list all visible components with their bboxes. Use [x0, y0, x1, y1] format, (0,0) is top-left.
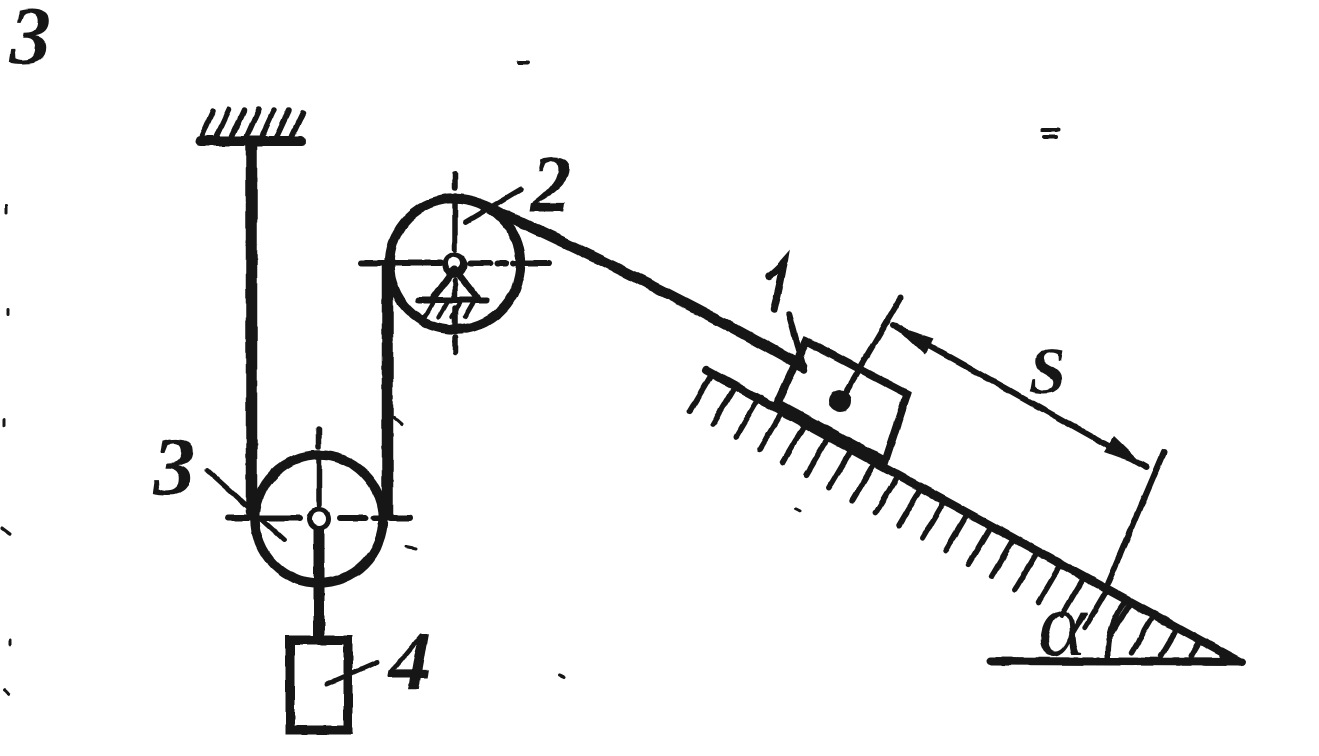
pulley 2 support base [418, 297, 487, 303]
pulley 2 horizontal centerline [361, 260, 549, 266]
pulley 2 support triangle [433, 269, 477, 298]
dimension S right extension line [1108, 452, 1164, 584]
rope from ceiling to pulley 3 [246, 145, 258, 512]
link rod from pulley 3 to weight 4 [314, 520, 325, 642]
ceiling hatching [202, 109, 303, 136]
pulley 2 vertical centerline [452, 174, 458, 352]
svg-text:α: α [1038, 573, 1088, 675]
pulley 3 wheel [255, 455, 383, 583]
dimension S left extension line [841, 298, 901, 400]
pulley 2 hub [443, 253, 468, 278]
dimension S left arrowhead [892, 324, 934, 355]
svg-text:3: 3 [152, 420, 195, 513]
leader line label 3 [207, 470, 284, 540]
pin on block 1 [829, 390, 851, 412]
label 1 [769, 262, 784, 309]
dimension S line [893, 325, 1146, 467]
svg-text:2: 2 [530, 141, 571, 229]
ground line [991, 661, 1242, 662]
rope from pulley 2 to block 1 [485, 206, 802, 366]
ceiling mount bar [200, 136, 301, 146]
leader line label 4 [327, 662, 377, 684]
svg-text:3: 3 [9, 0, 51, 81]
pulley 2 wheel [390, 199, 521, 330]
pulley 3 hub [307, 507, 331, 531]
incline surface [706, 370, 1240, 662]
pulley 3 horizontal centerline [228, 515, 410, 521]
weight 4 [290, 640, 348, 730]
svg-text:S: S [1029, 335, 1066, 408]
scan speck top right [519, 62, 1058, 137]
pulley 3 vertical centerline [316, 429, 322, 505]
incline hatching [690, 375, 1223, 656]
pulley 2 support hatching [425, 303, 473, 317]
leader line label 1 [789, 314, 804, 370]
leader line label 2 [466, 189, 521, 222]
angle arc [1108, 600, 1126, 661]
scan specks left margin [2, 205, 800, 694]
dimension S right arrowhead [1104, 436, 1146, 467]
rope between pulley 3 and pulley 2 [382, 265, 394, 514]
svg-text:4: 4 [387, 615, 431, 708]
block 1 [778, 341, 908, 461]
